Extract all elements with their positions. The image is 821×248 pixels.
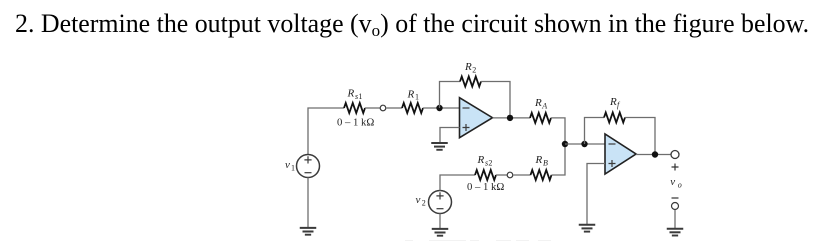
node at op-amp1 inverting input bbox=[436, 105, 442, 111]
svg-text:2: 2 bbox=[488, 158, 492, 167]
ground op-amp2 bbox=[579, 225, 596, 232]
label Rs2 bbox=[477, 154, 493, 167]
resistor Rs2 bbox=[475, 170, 496, 180]
terminal output bottom bbox=[672, 203, 679, 210]
wire R2 right branch bbox=[481, 82, 510, 119]
label vo bbox=[670, 176, 682, 189]
node summing junction bbox=[562, 141, 568, 147]
svg-text:R: R bbox=[407, 88, 415, 100]
wire v1 top to Rs1 bbox=[308, 108, 344, 155]
svg-text:R: R bbox=[534, 97, 542, 109]
svg-text:v: v bbox=[285, 159, 290, 171]
svg-text:1: 1 bbox=[358, 92, 362, 101]
svg-text:R: R bbox=[535, 154, 543, 166]
plus sign output bbox=[672, 164, 679, 171]
node output bbox=[652, 151, 658, 157]
svg-text:R: R bbox=[609, 96, 617, 108]
svg-text:R: R bbox=[347, 88, 355, 100]
svg-text:f: f bbox=[617, 100, 621, 109]
svg-text:R: R bbox=[477, 154, 485, 166]
wire v1 to ground bbox=[307, 178, 309, 229]
svg-text:1: 1 bbox=[415, 93, 419, 102]
wire RA to summing node bbox=[551, 118, 565, 144]
node op-amp1 output bbox=[507, 115, 513, 121]
svg-text:A: A bbox=[541, 101, 547, 110]
wire R1 to op-amp1 inverting input bbox=[423, 107, 460, 109]
wire terminal to R1 bbox=[387, 107, 403, 109]
ground op-amp1 bbox=[431, 143, 448, 150]
voltage source v1 bbox=[297, 155, 320, 178]
svg-text:v: v bbox=[416, 194, 421, 206]
ground v1 bbox=[300, 228, 317, 235]
wire op-amp1 output bbox=[493, 117, 531, 119]
label R2 bbox=[464, 61, 476, 74]
terminal (pot wiper) after Rs2 bbox=[507, 172, 513, 178]
wire op-amp2 output to terminal bbox=[636, 154, 672, 156]
resistor Rf bbox=[604, 113, 625, 123]
voltage source v2 bbox=[429, 191, 452, 214]
terminal (pot wiper) after Rs1 bbox=[380, 105, 386, 111]
ground output bbox=[667, 229, 684, 236]
resistor RA bbox=[530, 113, 551, 123]
wire op-amp2 + input to ground bbox=[587, 164, 605, 226]
svg-text:o: o bbox=[678, 180, 682, 189]
faint cropped text artifacts at bottom edge bbox=[405, 240, 551, 241]
svg-text:1: 1 bbox=[291, 164, 295, 173]
label RA bbox=[534, 97, 547, 110]
op-amp U2 bbox=[605, 134, 636, 174]
op-amp U1 bbox=[460, 98, 493, 138]
wire R2 left branch bbox=[440, 82, 461, 109]
wire v2 to ground bbox=[439, 214, 441, 230]
wire terminal to ground bbox=[674, 210, 676, 229]
label v1 bbox=[285, 159, 295, 173]
label Rs1 bbox=[347, 88, 363, 101]
resistor RB bbox=[531, 170, 552, 180]
svg-text:2: 2 bbox=[422, 198, 426, 207]
svg-text:v: v bbox=[670, 176, 675, 188]
wire Rs1 to terminal bbox=[365, 107, 380, 109]
svg-text:0 – 1 kΩ: 0 – 1 kΩ bbox=[337, 116, 374, 128]
resistor R1 bbox=[402, 103, 423, 113]
svg-text:2: 2 bbox=[472, 66, 476, 75]
wire Rf left branch bbox=[585, 118, 605, 145]
wire RB up to summing node bbox=[552, 144, 566, 175]
wire Rf right branch bbox=[625, 118, 655, 155]
minus sign output bbox=[672, 197, 679, 199]
svg-text:B: B bbox=[543, 158, 548, 167]
resistor Rs1 bbox=[344, 103, 365, 113]
label RB bbox=[535, 154, 549, 167]
label v2 bbox=[416, 194, 426, 207]
svg-text:0 – 1 kΩ: 0 – 1 kΩ bbox=[467, 181, 504, 193]
ground v2 bbox=[432, 229, 449, 236]
label R1 bbox=[407, 88, 420, 101]
terminal output top bbox=[671, 151, 679, 159]
wire summing node to op-amp2 inverting input bbox=[565, 143, 605, 145]
label Rf bbox=[609, 96, 621, 109]
node Rf tap bbox=[581, 141, 587, 147]
svg-text:R: R bbox=[464, 61, 472, 73]
wire v2 to Rs2 row bbox=[440, 175, 475, 191]
wire Rs2 to terminal bbox=[496, 174, 507, 176]
resistor R2 bbox=[460, 77, 481, 87]
wire terminal to RB bbox=[514, 174, 531, 176]
wire op-amp1 + input to ground bbox=[440, 128, 460, 144]
